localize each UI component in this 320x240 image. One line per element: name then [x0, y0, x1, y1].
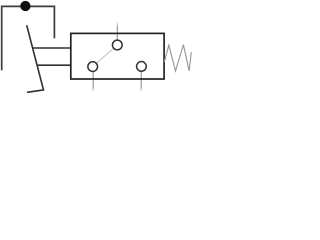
wire W2 (lever to box, upper) — [32, 47, 71, 49]
node A (junction dot on top wire) — [20, 1, 30, 11]
wire W1 (left feed: down-left-top run) — [2, 6, 55, 70]
spring R1 (zigzag on right side) — [164, 45, 191, 71]
lever (switch actuator arm) — [27, 25, 44, 92]
terminal T2 (top circle, NC) — [112, 40, 122, 50]
terminal T3 (bottom-right circle, NO) — [137, 62, 147, 72]
contact blade (diagonal between terminals) — [94, 46, 116, 65]
pin 1 (top pin of switch body) — [116, 21, 118, 40]
switch body S1 (rectangle) — [71, 33, 164, 79]
wire W3 (lever to box, lower) — [37, 64, 71, 66]
pin 3 (bottom-right pin of switch body) — [140, 71, 142, 92]
terminal T1 (bottom-left circle, common) — [88, 62, 98, 72]
pin 2 (bottom-left pin of switch body) — [92, 71, 94, 92]
